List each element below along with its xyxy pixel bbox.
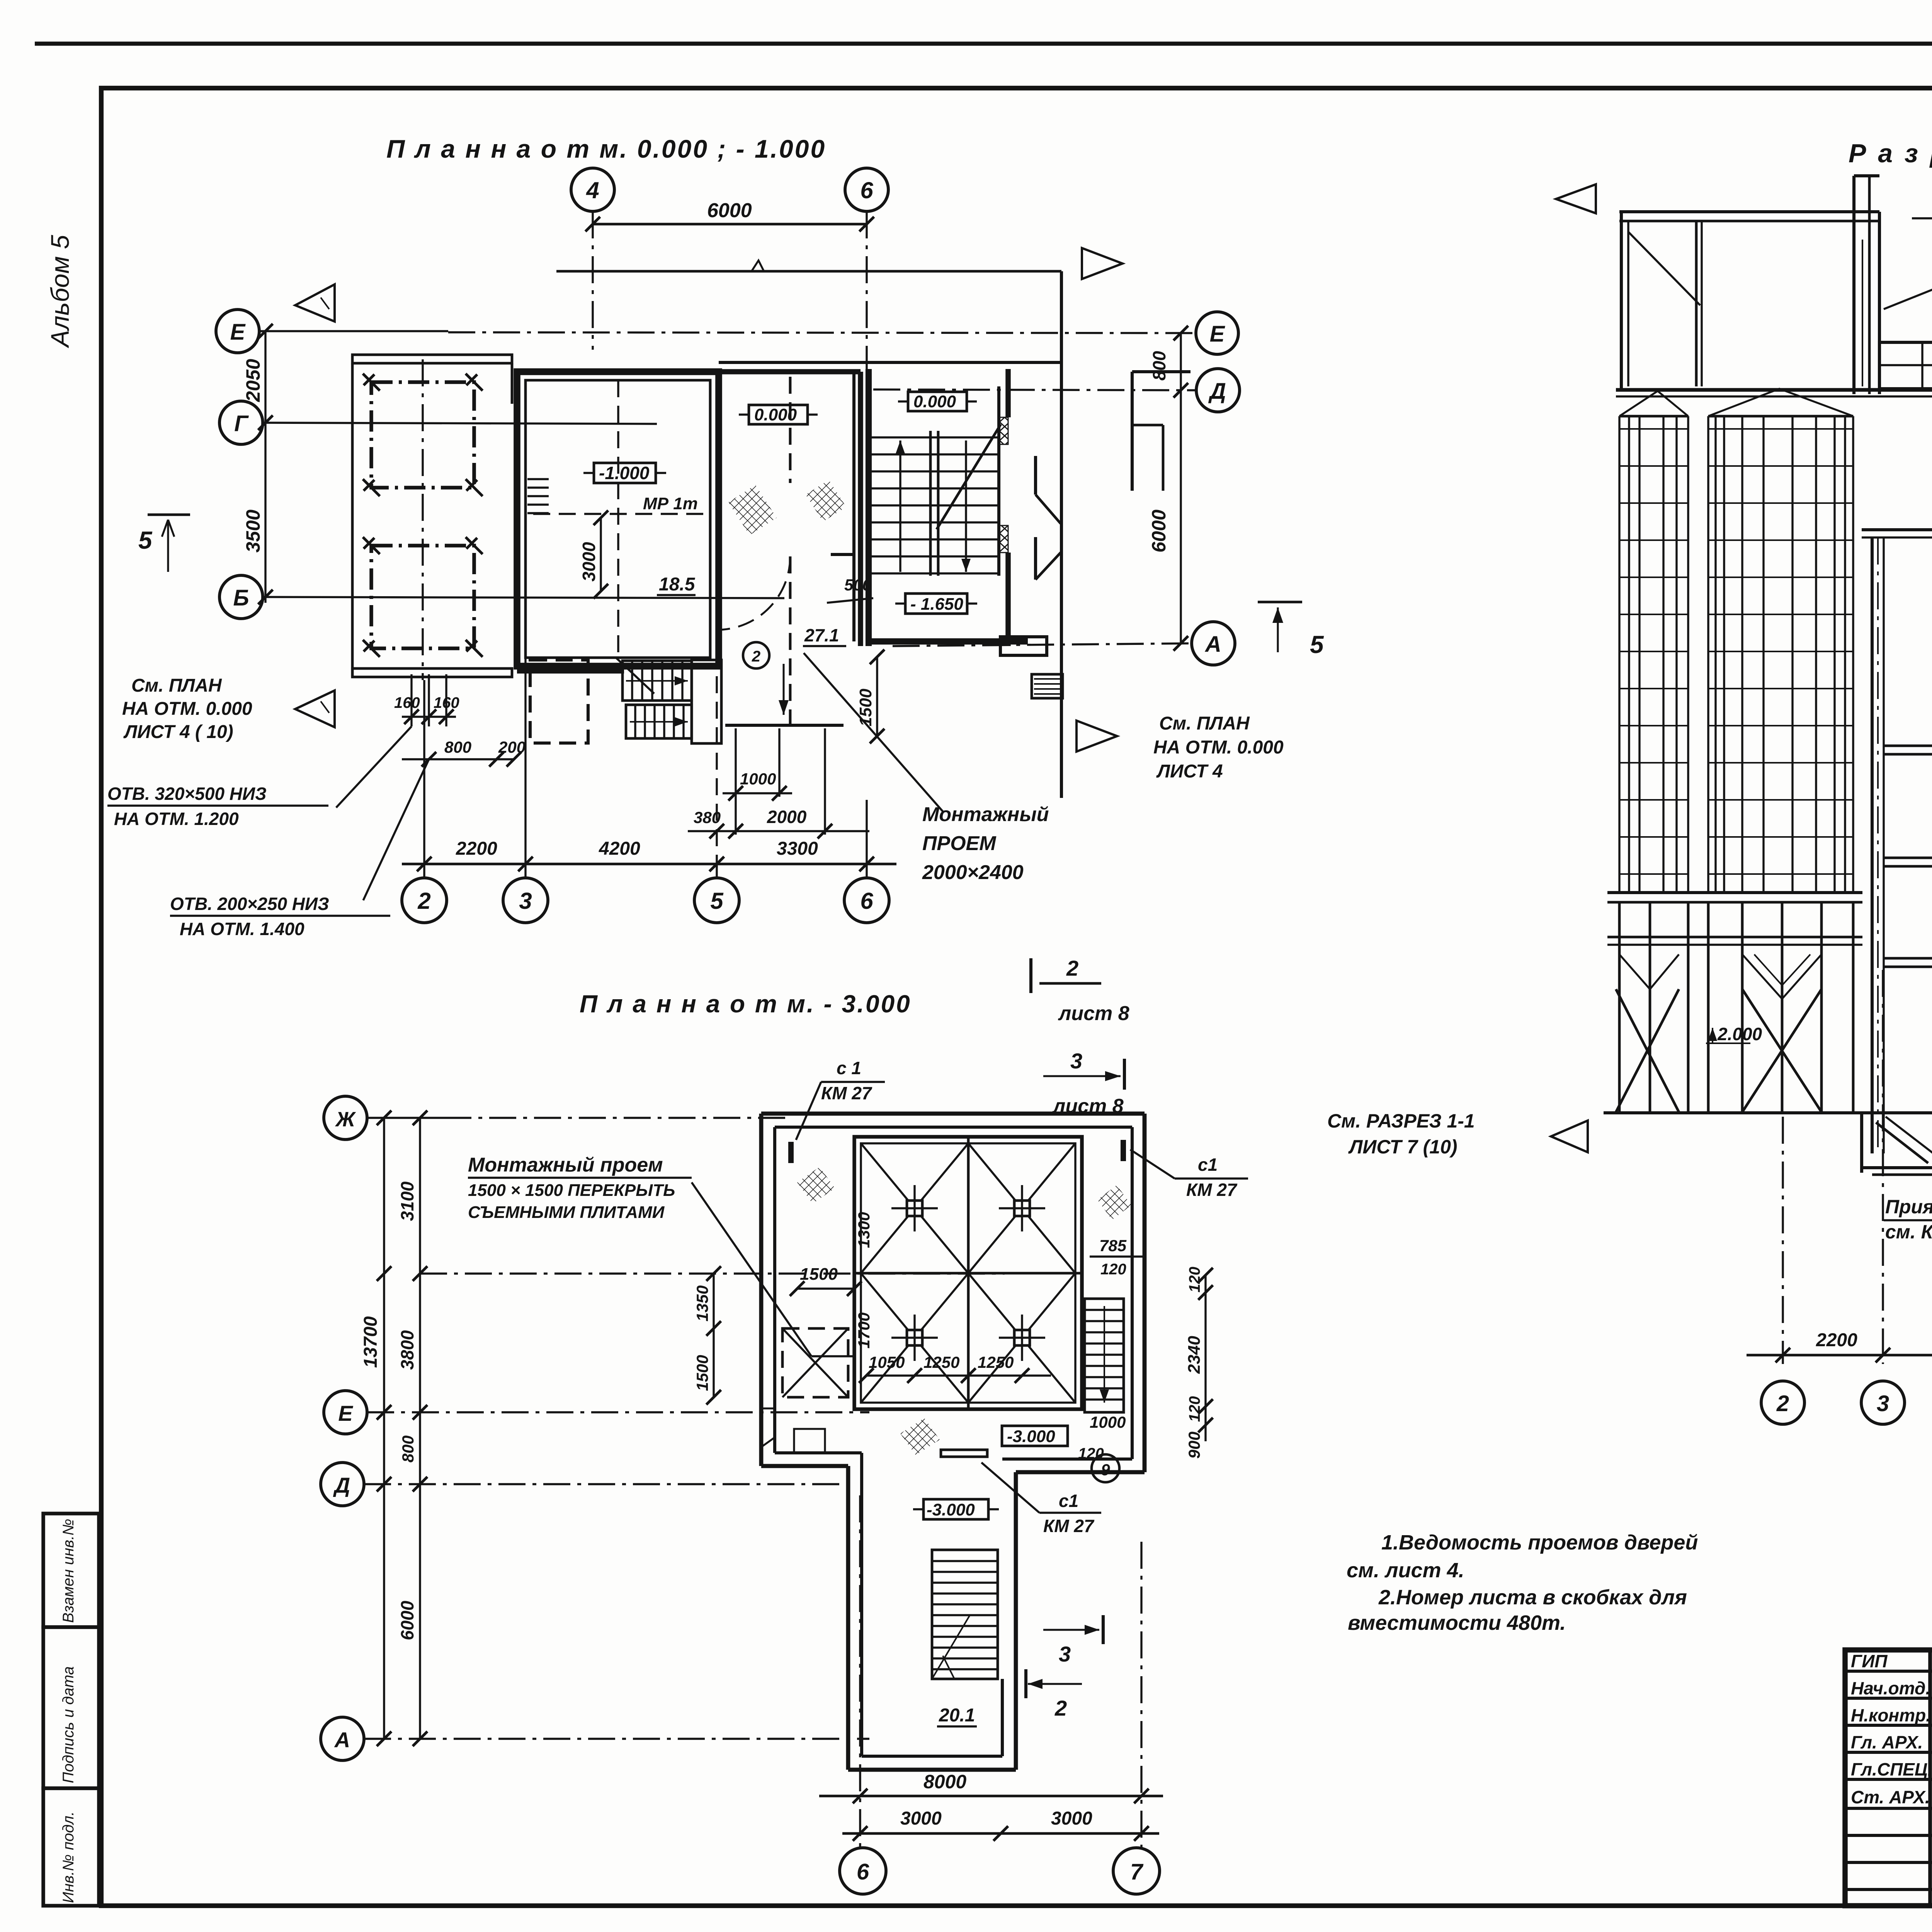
stair block left wall (866, 369, 872, 646)
axis circle А (plan2) (321, 1717, 364, 1760)
svg-text:Инв.№ подл.: Инв.№ подл. (60, 1811, 77, 1903)
svg-text:27.1: 27.1 (804, 625, 839, 645)
svg-text:1.Ведомость проемов дверей: 1.Ведомость проемов дверей (1381, 1531, 1698, 1554)
corner bracket c1 right (1121, 1140, 1126, 1161)
level mark -1.000 (594, 463, 656, 483)
silo support beams (1607, 936, 1862, 939)
svg-text:ЛИСТ 7 (10): ЛИСТ 7 (10) (1348, 1136, 1458, 1158)
svg-text:См. ПЛАН: См. ПЛАН (131, 675, 222, 696)
axis circle 5 (bottom) (694, 878, 739, 923)
dim 8000 (819, 1795, 1163, 1798)
svg-text:НА ОТМ. 1.400: НА ОТМ. 1.400 (180, 919, 304, 939)
svg-text:ПРОЕМ: ПРОЕМ (922, 832, 997, 855)
axis circle Е (left) (216, 310, 259, 353)
svg-text:6: 6 (857, 1859, 869, 1884)
section mark 3 лист 8 (1123, 1059, 1126, 1090)
svg-text:КМ 27: КМ 27 (1186, 1180, 1238, 1200)
svg-text:1250: 1250 (923, 1353, 959, 1371)
axis drop lines to bottom circles (423, 680, 425, 877)
svg-text:Гл. АРХ.: Гл. АРХ. (1851, 1732, 1923, 1752)
section cut break (752, 260, 764, 271)
section view triangle left top (295, 284, 335, 321)
pit bottom wall right part (1016, 1470, 1145, 1475)
svg-text:Е: Е (1210, 321, 1226, 347)
penthouse right wall details (1862, 240, 1863, 386)
svg-text:см. лист 4.: см. лист 4. (1347, 1559, 1464, 1582)
crane bay 1 dash-dot square (371, 382, 474, 488)
svg-text:1000: 1000 (1090, 1413, 1126, 1431)
svg-text:3500: 3500 (242, 510, 264, 553)
svg-text:900: 900 (1185, 1432, 1203, 1459)
svg-text:6000: 6000 (707, 199, 752, 222)
svg-text:8000: 8000 (923, 1771, 966, 1793)
hopper cone right silo (1742, 954, 1821, 999)
svg-text:3100: 3100 (397, 1181, 417, 1221)
crane bay corner tick (466, 537, 483, 554)
svg-text:5: 5 (138, 526, 153, 554)
axis circle Ж (324, 1096, 367, 1139)
crane bay corner tick (363, 537, 380, 554)
svg-text:КМ 27: КМ 27 (1043, 1516, 1095, 1536)
level mark -3.000 (pit) (1002, 1426, 1068, 1446)
balcony platform grid (1879, 342, 1932, 389)
section mark 5 right (1258, 601, 1302, 604)
penthouse diagonal brace (1628, 232, 1700, 305)
right block outer walls (1132, 370, 1190, 373)
svg-text:18.5: 18.5 (659, 574, 696, 595)
level mark -1.650 (905, 594, 967, 614)
svg-text:2: 2 (1066, 956, 1078, 980)
svg-text:3: 3 (1059, 1642, 1071, 1666)
tank pit inner square (854, 1137, 1082, 1409)
svg-text:Ст. АРХ.: Ст. АРХ. (1851, 1787, 1930, 1807)
plan2 left dim lines (383, 1118, 385, 1739)
title block outer box (1845, 1650, 1932, 1906)
pit outer wall top inner (775, 1126, 1132, 1129)
crane bay corner tick (363, 374, 380, 391)
svg-text:120: 120 (1100, 1261, 1126, 1278)
axis circle 2 (bottom) (402, 878, 447, 923)
section pit left wall (1860, 1113, 1863, 1173)
montage opening mark (bracket) (831, 554, 854, 578)
X brace left bay (1616, 989, 1679, 1112)
svg-text:785: 785 (1099, 1236, 1127, 1255)
stem wall right (1014, 1472, 1018, 1770)
title block signature row lines (1845, 1670, 1932, 1673)
svg-text:3000: 3000 (579, 542, 599, 582)
dim 1350 rotated (713, 1274, 714, 1328)
svg-text:2200: 2200 (456, 838, 497, 859)
svg-text:6: 6 (860, 177, 873, 203)
right corridor wall (1060, 271, 1063, 798)
landing wall hatch bottom (999, 526, 1008, 553)
dim 1000 (723, 792, 792, 794)
svg-text:3: 3 (519, 888, 532, 914)
svg-text:КМ 27: КМ 27 (821, 1083, 872, 1103)
axis line Б (263, 597, 784, 598)
svg-text:Б: Б (233, 585, 249, 611)
dashed pit rectangle (530, 660, 588, 743)
stair up arrows (899, 440, 901, 572)
axis circle Е (plan2) (324, 1391, 367, 1434)
svg-text:2050: 2050 (242, 359, 264, 402)
svg-text:-3.000: -3.000 (1007, 1427, 1055, 1446)
svg-text:см. КЖ1 л.5: см. КЖ1 л.5 (1885, 1221, 1932, 1243)
svg-text:200: 200 (498, 738, 526, 756)
leader lines from dims (336, 726, 412, 808)
svg-text:П л а н н а о т м. 0.0: П л а н н а о т м. 0.000 ; - 1.000 (386, 134, 826, 163)
small stair symbol in room (left wall) (527, 478, 549, 480)
axis circle 7 (plan2) (1113, 1848, 1160, 1894)
view triangle left top (section) (1556, 184, 1596, 213)
svg-text:1250: 1250 (978, 1353, 1014, 1371)
level mark 0.000 stair (908, 392, 967, 411)
right silo cone top (1708, 389, 1853, 416)
axis circle 3 (bottom) (503, 878, 548, 923)
svg-text:20.1: 20.1 (939, 1705, 975, 1726)
axis circle Д (plan2) (321, 1463, 364, 1506)
svg-text:Ж: Ж (335, 1108, 356, 1131)
svg-text:ОТВ. 320×500 НИЗ: ОТВ. 320×500 НИЗ (107, 784, 267, 804)
hopper cone left silo (1619, 954, 1679, 989)
left silo body (1618, 416, 1620, 893)
floor 3.500 (1884, 957, 1932, 960)
tank divider horizontal (854, 1272, 1082, 1275)
svg-text:Р а з р е з 5 - 5: Р а з р е з 5 - 5 (1849, 139, 1932, 168)
axis circle 6 (top) (845, 168, 888, 211)
svg-text:с 1: с 1 (837, 1058, 861, 1078)
dim 1500 (pit left) (797, 1287, 854, 1289)
penthouse roof slab (1619, 210, 1879, 213)
pit outer wall top (761, 1112, 1145, 1116)
main room outer wall (517, 372, 719, 666)
svg-text:Подпись и дата: Подпись и дата (60, 1666, 77, 1783)
svg-text:2200: 2200 (1816, 1330, 1857, 1350)
stem stair treads (932, 1550, 998, 1679)
stair stringer (929, 431, 932, 576)
hatch patch corridor 2 (806, 480, 846, 522)
crane bay corner tick (363, 640, 380, 657)
stair corner cut diagonal (616, 658, 654, 694)
svg-text:1300: 1300 (855, 1212, 873, 1248)
crane bay 2 dash-dot square (371, 546, 474, 648)
axis mid line (Ж-Е upper) (420, 1272, 1005, 1274)
section mark 2 лист 8 (top) (1029, 958, 1032, 993)
vertical dim drops (716, 676, 718, 867)
axis circle 6 (bottom) (844, 878, 889, 923)
crane bay corner tick (466, 374, 483, 391)
tank X braces (861, 1143, 968, 1273)
corridor top outer wall (719, 361, 1063, 364)
axis circle Д (right) (1196, 369, 1240, 412)
svg-text:Приямок ПР2: Приямок ПР2 (1885, 1196, 1932, 1218)
right vertical dim line (1180, 333, 1182, 643)
stair block bottom wall (869, 638, 1028, 645)
svg-text:2.Номер листа в скобках дл: 2.Номер листа в скобках для (1378, 1586, 1687, 1609)
circle node 9 (1092, 1454, 1119, 1482)
axis circle Б (left) (219, 575, 263, 619)
lower stair flight 2 (626, 705, 692, 738)
door swing arc corridor (717, 556, 790, 630)
svg-text:Альбом 5: Альбом 5 (46, 235, 74, 349)
left block outline (351, 363, 354, 677)
svg-text:9: 9 (1101, 1461, 1110, 1479)
wall below main room (517, 667, 624, 673)
left block top wall band (352, 355, 512, 363)
dim 3000 rotated in room (600, 518, 602, 591)
svg-text:2: 2 (1776, 1391, 1789, 1416)
roof shaft stub (1854, 174, 1879, 177)
svg-text:3000: 3000 (900, 1808, 942, 1829)
svg-text:НА ОТМ. 0.000: НА ОТМ. 0.000 (1153, 737, 1284, 758)
stem stair diagonal (932, 1615, 970, 1679)
svg-text:Е: Е (230, 320, 246, 345)
section dim line (1747, 1354, 1932, 1357)
svg-text:500: 500 (844, 576, 871, 594)
section pit floor (1862, 1166, 1932, 1169)
svg-text:ГИП: ГИП (1851, 1651, 1888, 1671)
dim 800/200 (402, 758, 514, 760)
axis line Ж (367, 1117, 444, 1119)
section arrow right bottom (1077, 721, 1117, 752)
section 5 cut line top (556, 270, 1061, 273)
main room inner wall line (526, 380, 710, 658)
svg-text:4: 4 (586, 177, 599, 203)
svg-text:800: 800 (399, 1435, 417, 1463)
dim chain 1050/1250/1250 (866, 1374, 1051, 1376)
tank column plate (907, 1201, 922, 1216)
landing wall hatch top (999, 417, 1008, 444)
title block signature column lines (1928, 1650, 1932, 1906)
dim 1500 rotated (lower) (713, 1328, 714, 1397)
stem wall left (846, 1466, 850, 1770)
balcony slab below stair (1000, 637, 1047, 655)
silo support legs (1618, 902, 1621, 1112)
stair diagonal line (937, 424, 1001, 529)
svg-text:0.000: 0.000 (913, 392, 956, 411)
penthouse right column (1852, 176, 1855, 394)
svg-text:1500 × 1500 ПЕРЕКРЫТЬ: 1500 × 1500 ПЕРЕКРЫТЬ (468, 1181, 675, 1200)
stamp column box 1 (Взамен инв.№) (43, 1514, 99, 1627)
svg-text:1500: 1500 (800, 1265, 838, 1284)
dim 1500 rotated (876, 657, 878, 736)
svg-text:СЪЕМНЫМИ ПЛИТАМИ: СЪЕМНЫМИ ПЛИТАМИ (468, 1203, 665, 1222)
svg-text:5: 5 (1310, 631, 1324, 658)
axis line E mid dash (367, 1411, 869, 1413)
stair right wall (997, 386, 1000, 576)
dash-dot drops to circles 6,7 (859, 1495, 861, 1850)
circle node 2 (743, 642, 769, 668)
lower stair landing (692, 660, 721, 743)
stair treads (871, 436, 999, 438)
svg-text:1050: 1050 (869, 1353, 905, 1371)
corridor/stair dividing wall (852, 372, 855, 641)
montage opening leader (804, 653, 943, 811)
svg-text:П л а н н а о т м. - 3.00: П л а н н а о т м. - 3.000 (580, 990, 912, 1018)
svg-text:3800: 3800 (397, 1330, 417, 1370)
svg-text:6000: 6000 (397, 1600, 417, 1640)
floor 5.800 (1884, 857, 1932, 859)
level mark 2.000 (1706, 1043, 1750, 1044)
svg-text:НА ОТМ. 1.200: НА ОТМ. 1.200 (114, 809, 239, 829)
svg-text:2000×2400: 2000×2400 (922, 861, 1024, 884)
crane bay corner tick (466, 640, 483, 657)
ground line section (1604, 1111, 1932, 1114)
corridor bottom wall line (725, 724, 844, 727)
svg-text:800: 800 (1149, 351, 1169, 381)
dim ticks 160/160 (410, 674, 412, 726)
penthouse left wall (1620, 212, 1623, 390)
hatch patch pit top-right (1097, 1185, 1131, 1220)
svg-text:1350: 1350 (693, 1286, 711, 1321)
pit outer wall left (759, 1114, 764, 1466)
svg-text:ЛИСТ 4: ЛИСТ 4 (1156, 761, 1223, 782)
room dash centerlines (617, 380, 619, 657)
svg-text:1500: 1500 (693, 1355, 711, 1391)
svg-text:3: 3 (1070, 1049, 1082, 1073)
door notch bottom-left of pit (761, 1408, 775, 1447)
pit bottom wall left part (761, 1464, 848, 1468)
right silo body (1707, 416, 1709, 893)
right outside dims 120/2340/120/900 (1204, 1275, 1206, 1441)
svg-text:1700: 1700 (855, 1313, 873, 1349)
svg-text:2340: 2340 (1185, 1336, 1204, 1374)
silo support platform line (1616, 388, 1932, 392)
section view triangle left bottom (295, 690, 335, 727)
svg-text:120: 120 (1186, 1267, 1203, 1293)
svg-text:1000: 1000 (740, 770, 776, 788)
svg-text:вместимости 480т.: вместимости 480т. (1348, 1611, 1566, 1634)
svg-text:3: 3 (1877, 1391, 1889, 1416)
svg-text:13700: 13700 (361, 1316, 381, 1368)
svg-text:4200: 4200 (599, 838, 640, 859)
svg-text:120: 120 (1078, 1445, 1104, 1462)
svg-text:Н.контр.: Н.контр. (1851, 1705, 1931, 1725)
axis circle 4 (top) (571, 168, 614, 211)
shaft left wall (1871, 537, 1874, 1153)
svg-text:Гл.СПЕЦ.: Гл.СПЕЦ. (1851, 1759, 1932, 1779)
svg-text:3000: 3000 (1051, 1808, 1092, 1829)
svg-text:ОТВ. 200×250 НИЗ: ОТВ. 200×250 НИЗ (170, 894, 329, 914)
section mark 3 (stem) (1102, 1615, 1105, 1644)
axis 6 dash-dot drop line (866, 211, 867, 383)
svg-text:6000: 6000 (1148, 510, 1170, 553)
section axis drop lines (1782, 1117, 1784, 1364)
X brace right bay (1742, 989, 1821, 1112)
axis line А (893, 643, 1191, 646)
svg-text:См. РАЗРЕЗ 1-1: См. РАЗРЕЗ 1-1 (1327, 1110, 1475, 1132)
svg-text:с1: с1 (1059, 1491, 1078, 1511)
leader to opening (692, 1182, 811, 1356)
svg-text:3300: 3300 (777, 838, 818, 859)
corridor dashed opening lines (789, 377, 792, 483)
hatch patch pit bottom (900, 1418, 940, 1455)
svg-text:с1: с1 (1198, 1155, 1218, 1175)
axis 4 dash-dot drop line (592, 211, 594, 350)
dim 380/2000 (688, 830, 869, 832)
crane bay corner tick (466, 479, 483, 496)
svg-text:Нач.отд.: Нач.отд. (1851, 1678, 1930, 1698)
svg-text:См. ПЛАН: См. ПЛАН (1159, 713, 1250, 734)
axis circle 3 (section) (1861, 1381, 1905, 1424)
svg-text:Е: Е (338, 1401, 353, 1425)
silo bottom rings (1607, 891, 1862, 894)
section mark 2 (stem) (1024, 1669, 1027, 1698)
door openings right of stair (1034, 456, 1037, 495)
level mark -3.000 (stem) (923, 1499, 988, 1519)
dim 3000/3000 (842, 1832, 1159, 1835)
svg-text:120: 120 (1186, 1396, 1203, 1422)
svg-text:Монтажный проем: Монтажный проем (468, 1154, 663, 1176)
svg-text:2: 2 (752, 648, 760, 665)
axis line Д dash (364, 1483, 850, 1485)
penthouse interior column (1695, 221, 1698, 386)
svg-text:Г: Г (234, 411, 249, 436)
stamp column box 2 (Подпись и дата) (43, 1627, 99, 1788)
right block inner detail (1132, 424, 1163, 427)
axis circle Г (left) (219, 401, 263, 444)
svg-text:Монтажный: Монтажный (922, 803, 1049, 826)
axis line Г (263, 423, 657, 424)
floor 8.100 (1884, 745, 1932, 747)
svg-text:МР 1т: МР 1т (643, 494, 698, 513)
svg-text:5: 5 (710, 888, 724, 914)
stair right wall lower (1005, 553, 1011, 646)
svg-text:7: 7 (1130, 1859, 1144, 1884)
axis circle 6 (plan2) (840, 1848, 886, 1894)
tank column plate (1014, 1330, 1030, 1345)
svg-text:- 1.650: - 1.650 (910, 595, 964, 614)
stamp column box 3 (Инв.№ подл.) (43, 1788, 99, 1906)
lower stair flight 1 (622, 661, 692, 701)
pit sloped struts left (1876, 1122, 1928, 1163)
left vertical dim line (264, 331, 266, 603)
pit stair right (1085, 1299, 1124, 1412)
svg-text:А: А (1204, 632, 1221, 657)
left block bottom wall band (352, 668, 512, 677)
corner bracket c1 top-left (788, 1142, 794, 1163)
svg-text:лист 8: лист 8 (1058, 1002, 1129, 1025)
dim 6000 top (593, 223, 867, 226)
axis line А dash (364, 1738, 869, 1740)
svg-text:ЛИСТ 4 ( 10): ЛИСТ 4 ( 10) (123, 722, 233, 742)
hatch patch corridor 1 (728, 485, 777, 535)
svg-text:2000: 2000 (767, 807, 807, 827)
svg-text:Д: Д (333, 1473, 350, 1497)
svg-text:-1.000: -1.000 (599, 463, 650, 483)
svg-text:А: А (334, 1728, 350, 1752)
axis circle Е (right) (1196, 312, 1238, 354)
view triangle left bottom (section) (1551, 1121, 1588, 1152)
axis circle 2 (section) (1761, 1381, 1804, 1424)
axis line Е (259, 330, 448, 332)
stem bottom (848, 1768, 1016, 1772)
svg-text:6: 6 (860, 888, 873, 914)
crane bay corner tick (363, 479, 380, 496)
svg-text:1500: 1500 (856, 689, 875, 726)
axis line Д (873, 389, 1196, 390)
svg-text:160: 160 (434, 694, 459, 711)
dashed brace square left (782, 1328, 848, 1397)
window symbol lower right (1032, 674, 1063, 698)
svg-text:Д: Д (1208, 379, 1226, 404)
svg-text:2: 2 (417, 888, 430, 914)
left silo cone top (1619, 391, 1688, 416)
svg-text:Взамен инв.№: Взамен инв.№ (60, 1519, 77, 1623)
level mark 0.000 corridor (749, 405, 808, 424)
bottom dim line plan1 (402, 863, 896, 866)
axis circle А (right) (1192, 622, 1235, 665)
